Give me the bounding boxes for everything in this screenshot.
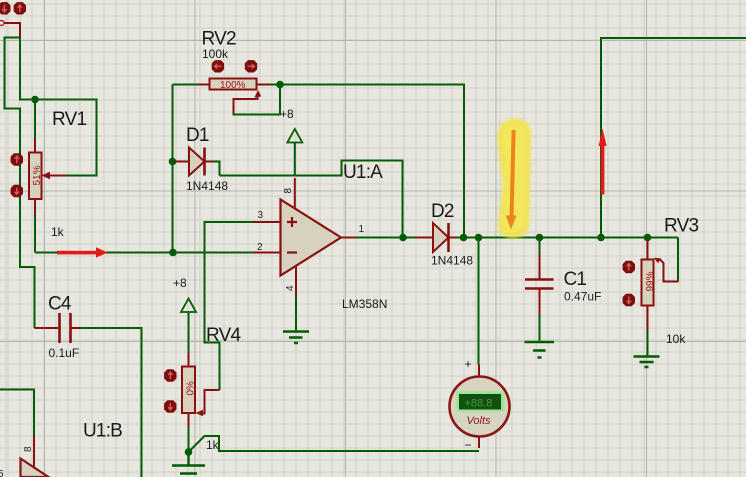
- svg-text:0.1uF: 0.1uF: [49, 346, 80, 360]
- RV4 button up: [164, 369, 176, 381]
- svg-text:C1: C1: [564, 269, 587, 290]
- ground (RV4): [172, 452, 205, 474]
- RV2 wiper: [234, 93, 258, 115]
- current arrow red (left): [57, 247, 108, 258]
- node voltmeter branch: [475, 234, 483, 242]
- svg-text:1N4148: 1N4148: [186, 179, 228, 193]
- pin end circle: [0, 21, 4, 26]
- node D2 cathode: [460, 234, 468, 242]
- svg-text:4: 4: [285, 285, 296, 291]
- wire inverting input net (1k wire): [35, 252, 253, 254]
- svg-text:0%: 0%: [185, 381, 196, 396]
- power +8 symbol (RV4): [188, 312, 190, 352]
- svg-text:1k: 1k: [51, 225, 65, 239]
- ground (RV3): [634, 357, 660, 368]
- pin 4 stub: [295, 267, 297, 296]
- wire RV4 bottom pin: [188, 413, 190, 427]
- yellow highlighter mark: [497, 118, 531, 238]
- RV1 button down: [11, 185, 23, 197]
- svg-text:1: 1: [359, 224, 365, 235]
- orange annotation arrow (down): [506, 130, 517, 230]
- RV3 wiper: [677, 238, 679, 282]
- svg-text:D2: D2: [431, 201, 454, 222]
- node RV4 bottom: [185, 448, 193, 456]
- svg-text:−: −: [465, 438, 472, 452]
- capacitor C1: [539, 238, 541, 255]
- voltmeter: [450, 377, 510, 437]
- wire RV1 bottom pin: [34, 199, 36, 215]
- svg-text:99%: 99%: [645, 271, 656, 291]
- svg-text:LM358N: LM358N: [342, 297, 387, 311]
- capacitor C4: [35, 327, 59, 329]
- svg-text:U1:B: U1:B: [83, 421, 122, 442]
- red current arrow (up): [599, 129, 607, 195]
- potentiometer RV1: [29, 153, 42, 200]
- wire RV4 wiper: [203, 390, 220, 414]
- wire RV3 bottom pin: [647, 306, 649, 331]
- wire to top-right corner: [601, 38, 746, 238]
- wire V+ net to rail: [220, 161, 403, 238]
- pot adjust button down (top-left): [0, 2, 11, 14]
- diode D2: [416, 237, 434, 239]
- svg-text:100%: 100%: [220, 80, 246, 91]
- wire RV2 to rail: [280, 85, 464, 238]
- wire left branch down to C4: [5, 38, 35, 329]
- potentiometer RV4: [182, 367, 195, 414]
- pin 8 stub: [294, 178, 296, 210]
- RV1 button up: [11, 153, 23, 165]
- wire output rail: [356, 237, 679, 239]
- svg-text:C4: C4: [48, 294, 72, 315]
- svg-text:100k: 100k: [202, 47, 229, 61]
- svg-text:3: 3: [258, 210, 264, 221]
- pin 1 stub: [341, 237, 356, 239]
- node RV1 top: [31, 96, 39, 104]
- RV3 button up: [623, 261, 635, 273]
- wire 1k to voltmeter negative: [189, 436, 480, 452]
- svg-text:+88.8: +88.8: [465, 398, 493, 410]
- svg-text:1N4148: 1N4148: [431, 254, 473, 268]
- svg-text:2: 2: [257, 242, 263, 253]
- RV4 button down: [164, 400, 176, 412]
- node RV3 branch: [644, 234, 652, 242]
- svg-text:+8: +8: [280, 107, 294, 121]
- wire RV1 wiper: [48, 175, 66, 177]
- pot adjust button up (top-left): [14, 2, 26, 14]
- svg-text:RV3: RV3: [664, 216, 698, 237]
- svg-text:RV1: RV1: [52, 109, 86, 130]
- potentiometer RV3: [647, 239, 649, 260]
- svg-text:U1:A: U1:A: [343, 162, 383, 183]
- potentiometer RV2: [172, 85, 174, 253]
- RV2 button left: [212, 60, 224, 72]
- wire non-inverting input net from RV4 wiper: [205, 222, 254, 390]
- wire RV1 top pin: [34, 100, 36, 139]
- svg-text:10k: 10k: [666, 332, 686, 346]
- svg-text:D1: D1: [186, 125, 209, 146]
- wire RV1 loop: [20, 37, 97, 176]
- svg-text:0.47uF: 0.47uF: [564, 290, 601, 304]
- pin 3 stub: [253, 221, 281, 223]
- svg-text:8: 8: [283, 188, 294, 194]
- wire voltmeter negative: [478, 437, 480, 449]
- svg-text:8: 8: [23, 446, 34, 452]
- op-amp U1:A: [281, 200, 342, 276]
- pin 2 stub: [253, 252, 281, 254]
- op-amp U1:B (partial, bottom-left): [0, 390, 34, 436]
- ground (U1:A pin 4): [295, 295, 297, 331]
- svg-text:51%: 51%: [32, 165, 43, 185]
- wire RV4 top pin: [188, 352, 190, 367]
- svg-text:RV4: RV4: [206, 325, 241, 346]
- diode D1: [169, 158, 177, 166]
- svg-text:Volts: Volts: [467, 415, 492, 427]
- svg-text:1k: 1k: [206, 438, 220, 452]
- node junction at x=173: [169, 249, 177, 257]
- wire from off-screen pot pin to left loop: [4, 23, 21, 37]
- RV2 button right: [245, 60, 257, 72]
- node RV2 output: [276, 81, 284, 89]
- node C1 branch: [536, 234, 544, 242]
- RV2 right pin: [257, 84, 271, 86]
- power +8 symbol (U1:A): [294, 143, 296, 176]
- node top-right branch: [597, 234, 605, 242]
- wire voltmeter positive: [478, 238, 480, 365]
- node output: [399, 234, 407, 242]
- ground (C1): [525, 342, 555, 358]
- svg-text:+: +: [465, 357, 472, 371]
- svg-text:5: 5: [0, 469, 4, 477]
- svg-text:+8: +8: [173, 276, 187, 290]
- RV3 button down: [623, 294, 635, 306]
